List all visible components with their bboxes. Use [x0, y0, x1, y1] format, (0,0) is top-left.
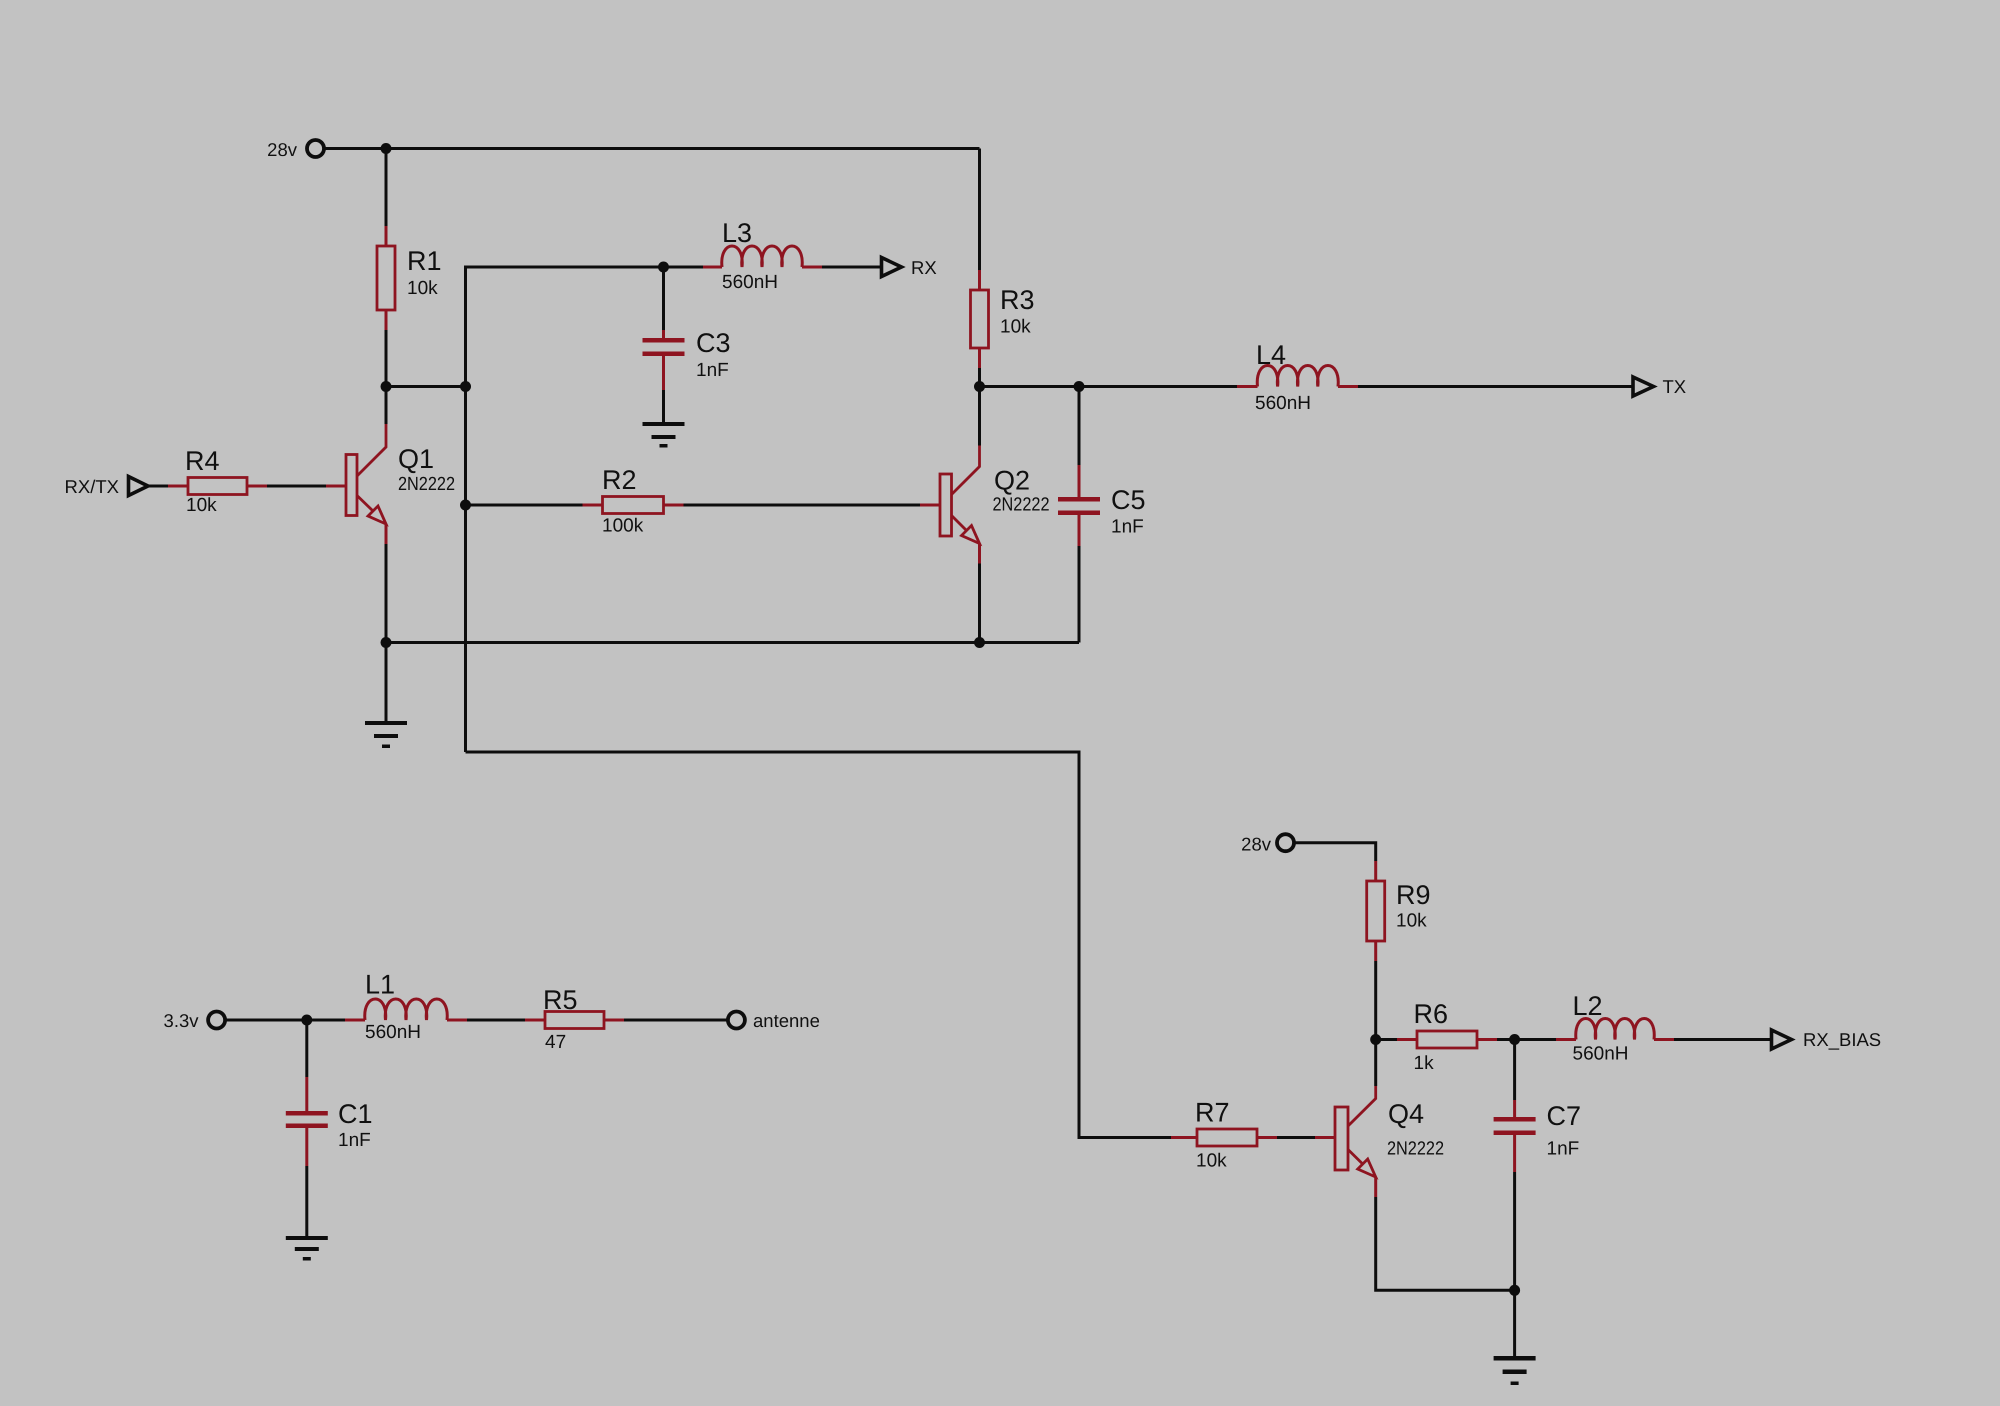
capacitor C1 1nF [286, 1020, 373, 1236]
wire Q1 emitter down [385, 544, 388, 643]
wire 3.3v to node [225, 1019, 307, 1022]
node R6/L2/C7 [1509, 1034, 1520, 1045]
wire rail down to R3 [978, 149, 981, 271]
svg-text:10k: 10k [1396, 911, 1427, 932]
wire node to L2 [1515, 1038, 1556, 1041]
resistor R3 10k [971, 270, 1035, 368]
svg-text:10k: 10k [407, 278, 438, 299]
svg-text:10k: 10k [1000, 317, 1031, 338]
svg-text:C1: C1 [338, 1099, 373, 1129]
svg-text:1k: 1k [1414, 1053, 1435, 1074]
wire node to L1 [307, 1019, 345, 1022]
svg-text:100k: 100k [602, 516, 644, 537]
svg-text:R5: R5 [543, 985, 578, 1015]
terminal 28v (top) [267, 139, 324, 160]
svg-text:RX_BIAS: RX_BIAS [1803, 1029, 1881, 1050]
svg-text:560nH: 560nH [722, 272, 778, 293]
input arrow RX/TX [65, 476, 148, 497]
resistor R9 10k [1367, 861, 1431, 961]
svg-text:1nF: 1nF [1547, 1139, 1580, 1160]
wire L4 to TX [1358, 385, 1633, 388]
wire to R2 [466, 504, 583, 507]
wire 28v to R9 [1294, 843, 1376, 861]
capacitor C5 1nF [1058, 387, 1146, 643]
wire L1 to R5 [467, 1019, 525, 1022]
node collector Q1 [381, 381, 392, 392]
junction node L3/C3 [658, 262, 669, 273]
inductor L4 560nH [1237, 340, 1358, 414]
svg-text:R6: R6 [1414, 999, 1449, 1029]
svg-text:C5: C5 [1111, 485, 1146, 515]
wire long route to Q4 stage [466, 752, 1172, 1138]
resistor R1 10k [377, 226, 442, 330]
bus wire bottom of top section [386, 641, 1079, 644]
wire R5 to antenne [624, 1019, 728, 1022]
svg-text:Q4: Q4 [1388, 1099, 1424, 1129]
wire Q1 collector up [385, 387, 388, 425]
terminal 3.3v [164, 1010, 226, 1031]
svg-text:R1: R1 [407, 246, 442, 276]
wire 28v to R1 [385, 149, 388, 227]
capacitor C3 1nF [643, 267, 731, 422]
node R9/R6/Q4 collector [1370, 1034, 1381, 1045]
wire R2 to Q2 base [684, 504, 921, 507]
svg-text:560nH: 560nH [1255, 393, 1311, 414]
wire emitter to ground [385, 643, 388, 722]
resistor R4 10k [168, 446, 267, 516]
wire TX row [980, 385, 1238, 388]
wire L2 to RX_BIAS [1674, 1038, 1771, 1041]
svg-text:antenne: antenne [753, 1010, 820, 1031]
inductor L2 560nH [1556, 991, 1674, 1065]
output arrow RX [882, 257, 937, 278]
svg-text:L1: L1 [365, 970, 395, 1000]
wire Q4 emitter down to bus [1376, 1197, 1515, 1290]
wire L3 to RX [822, 266, 881, 269]
svg-text:2N2222: 2N2222 [993, 495, 1050, 516]
svg-text:560nH: 560nH [365, 1022, 421, 1043]
svg-text:10k: 10k [186, 495, 217, 516]
wire node to R6 [1376, 1038, 1397, 1041]
wire bus to ground [1513, 1290, 1516, 1356]
svg-text:10k: 10k [1196, 1151, 1227, 1172]
svg-text:47: 47 [545, 1032, 566, 1053]
svg-text:Q1: Q1 [398, 444, 434, 474]
svg-text:28v: 28v [267, 139, 298, 160]
svg-text:L2: L2 [1573, 991, 1603, 1021]
wire arrow to R4 [148, 485, 168, 488]
svg-text:R7: R7 [1195, 1098, 1230, 1128]
svg-text:R4: R4 [185, 446, 220, 476]
svg-text:C7: C7 [1547, 1101, 1582, 1131]
junction R2/feedback line [460, 500, 471, 511]
svg-text:RX/TX: RX/TX [65, 476, 119, 497]
svg-text:1nF: 1nF [338, 1130, 371, 1151]
wire collector node to vertical feedback line [386, 385, 466, 388]
node R3/Q2 collector [974, 381, 985, 392]
terminal antenne [728, 1010, 820, 1031]
svg-text:R2: R2 [602, 465, 637, 495]
svg-text:RX: RX [911, 257, 937, 278]
junction Q2 emitter/bus [974, 637, 985, 648]
wire Q2 emitter down [978, 564, 981, 643]
wire R3 to node [978, 368, 981, 387]
svg-text:TX: TX [1663, 376, 1687, 397]
ground (C3) [643, 422, 685, 448]
junction emitter/bus [381, 637, 392, 648]
svg-text:C3: C3 [696, 328, 731, 358]
transistor Q4 2N2222 [1315, 1086, 1444, 1197]
wire node to L3 [664, 266, 704, 269]
resistor R6 1k [1397, 999, 1497, 1074]
svg-text:28v: 28v [1241, 834, 1272, 855]
svg-text:Q2: Q2 [994, 466, 1030, 496]
wire top rail [324, 147, 980, 150]
wire R4 to Q1 base [267, 485, 326, 488]
wire Q4 collector up [1374, 1040, 1377, 1087]
inductor L3 560nH [703, 218, 822, 293]
svg-text:R9: R9 [1396, 880, 1431, 910]
svg-text:3.3v: 3.3v [164, 1010, 200, 1031]
terminal 28v (bottom) [1241, 834, 1294, 855]
transistor Q1 2N2222 [326, 424, 455, 544]
junction C5 [1074, 381, 1085, 392]
svg-text:2N2222: 2N2222 [1387, 1139, 1444, 1160]
wire vertical feedback line [466, 267, 664, 752]
output arrow TX [1633, 376, 1686, 397]
svg-text:L4: L4 [1256, 340, 1286, 370]
ground (C1) [286, 1236, 328, 1261]
wire R6 to node [1497, 1038, 1515, 1041]
svg-text:560nH: 560nH [1573, 1044, 1629, 1065]
junction emitter bus/C7 [1509, 1285, 1520, 1296]
transistor Q2 2N2222 [920, 446, 1050, 564]
svg-text:L3: L3 [722, 218, 752, 248]
resistor R5 47 [525, 985, 624, 1053]
capacitor C7 1nF [1494, 1040, 1581, 1291]
wire R1 to collector node [385, 330, 388, 387]
junction C1 [301, 1015, 312, 1026]
ground (Q4/C7) [1494, 1356, 1536, 1385]
ground (Q1) [365, 721, 407, 748]
wire Q2 collector [978, 387, 981, 446]
svg-text:2N2222: 2N2222 [398, 474, 455, 495]
svg-text:1nF: 1nF [696, 360, 729, 381]
resistor R7 10k [1171, 1098, 1277, 1172]
junction 28v/R1 [381, 143, 392, 154]
svg-text:1nF: 1nF [1111, 517, 1144, 538]
resistor R2 100k [583, 465, 684, 537]
wire R9 to node [1374, 961, 1377, 1040]
inductor L1 560nH [345, 970, 467, 1044]
svg-text:R3: R3 [1000, 285, 1035, 315]
output arrow RX_BIAS [1772, 1029, 1882, 1050]
junction on feedback line [460, 381, 471, 392]
wire R7 to Q4 base [1277, 1136, 1315, 1139]
